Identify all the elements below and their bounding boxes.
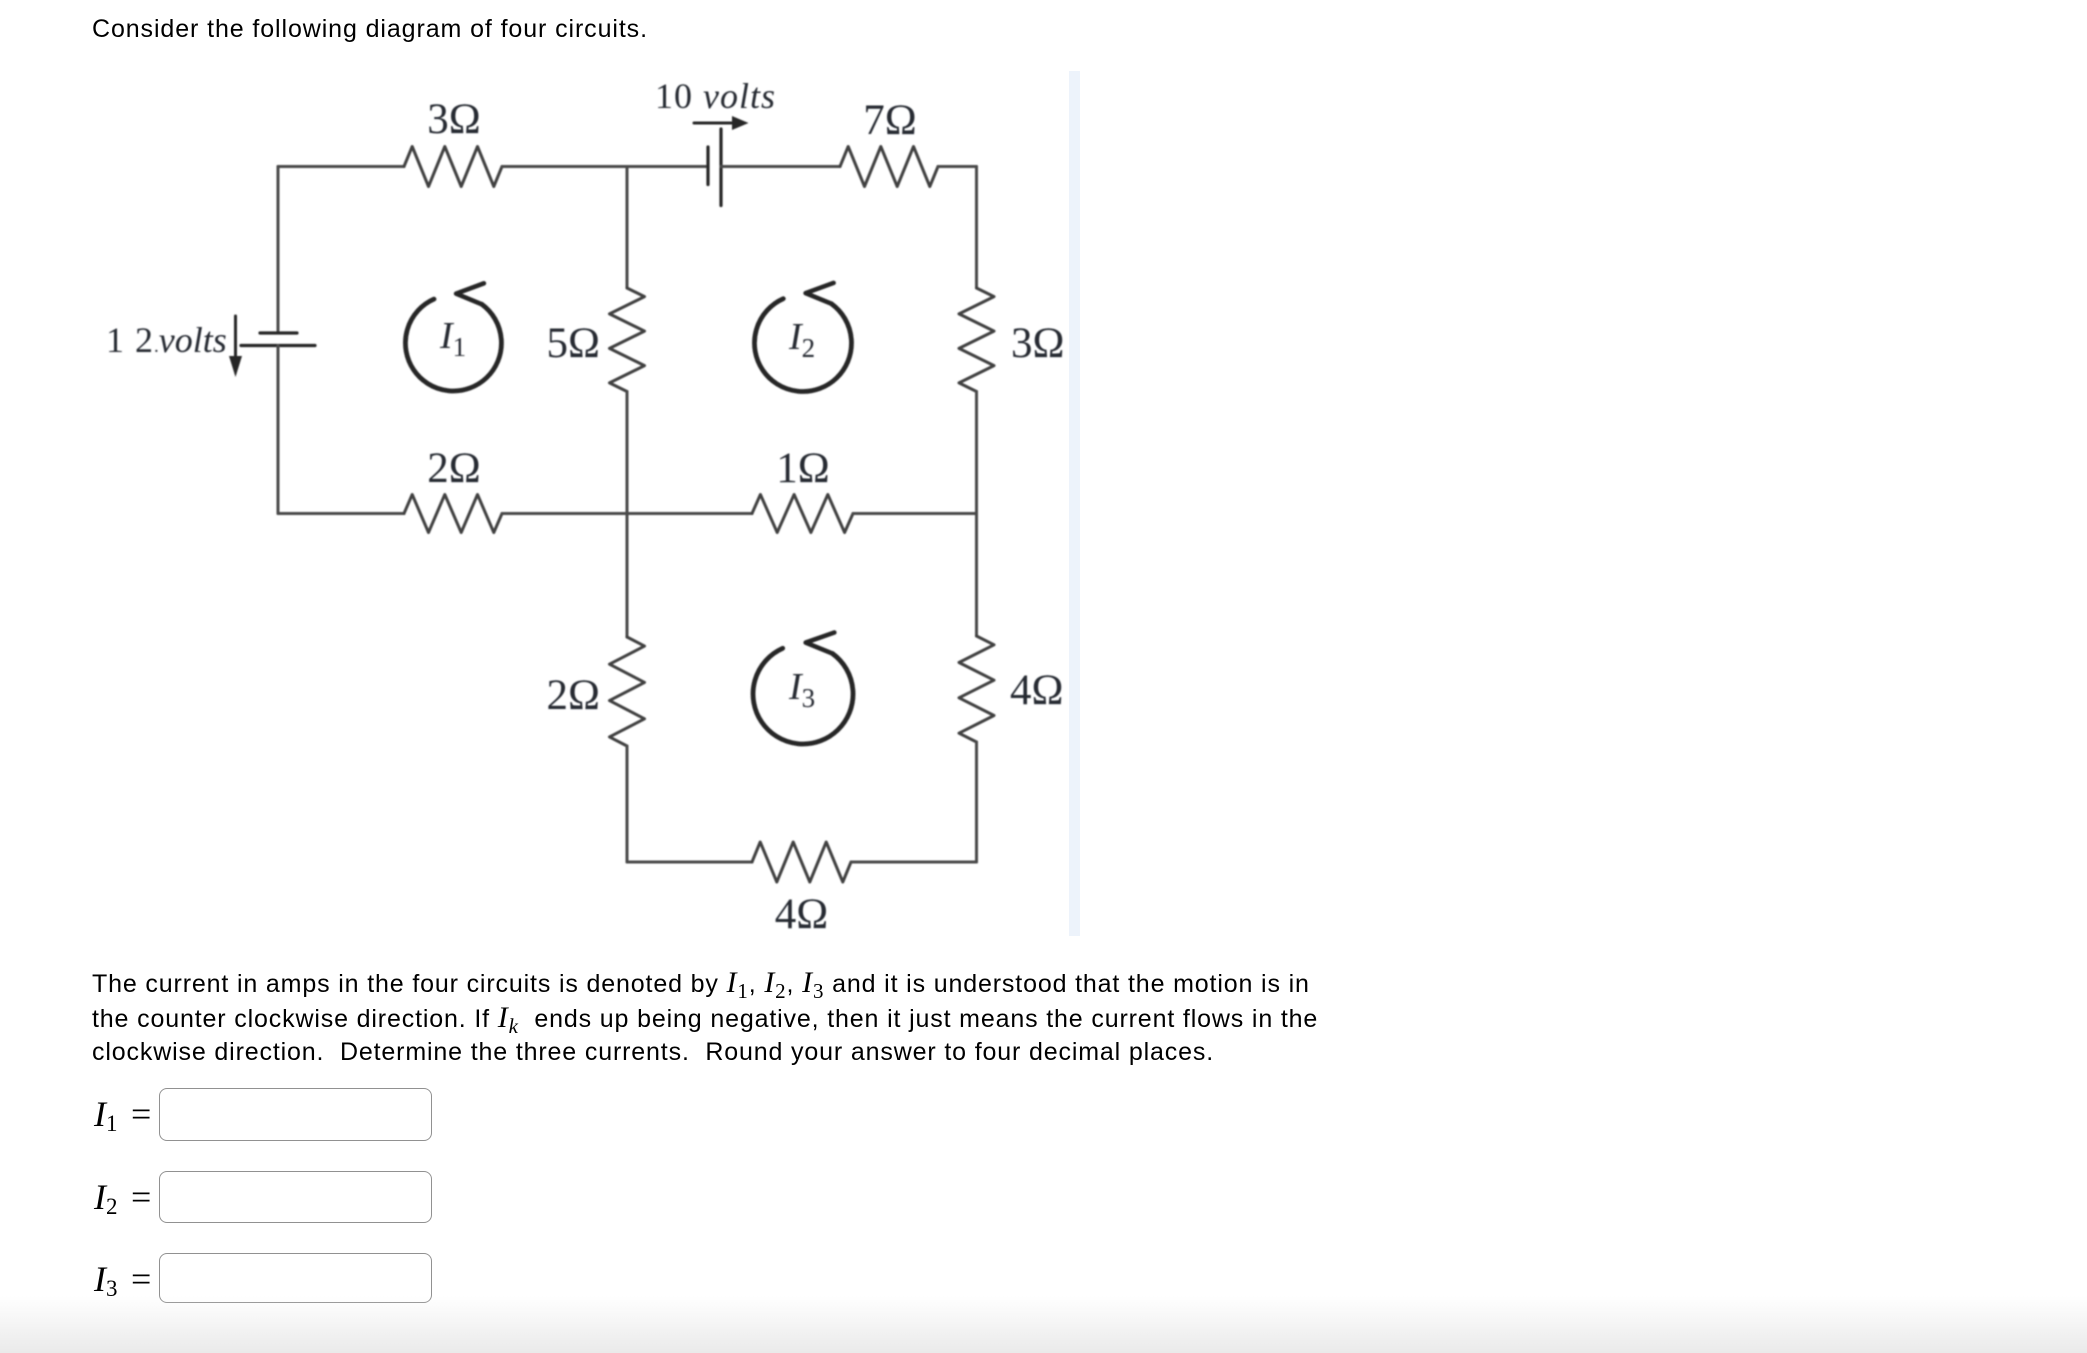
loop current I3 circle [753,648,853,744]
bottom gradient band [0,1296,2087,1353]
svg-text:4Ω: 4Ω [775,891,828,938]
wire right vertical bottom stub [975,742,978,862]
label 3 ohm top [427,96,480,143]
answer input box I3 [159,1253,432,1303]
arrow beside battery B1 line [234,316,237,358]
label 5 ohm [547,320,600,367]
answer label I3 = [94,1261,151,1297]
loop current I3 arrowhead [806,633,835,654]
resistor R 3ohm top [404,147,502,187]
wire middle horizontal center [502,512,752,515]
label loop current I3 [788,666,815,713]
loop current I1 arrowhead [456,283,484,304]
wire middle vertical bottom stub [626,746,629,862]
wire bottom left [627,861,752,864]
resistor R 7ohm top [840,147,938,187]
resistor R 2ohm lower vertical [610,637,645,746]
svg-text:2Ω: 2Ω [427,445,480,492]
loop current I2 arrowhead [806,283,834,304]
label 2 ohm lower [547,672,600,719]
paragraph text [92,966,1432,1070]
loop current I1 circle [405,299,501,391]
wire middle vertical center segment crossing node [626,392,629,638]
label 4 ohm bottom [775,891,828,938]
wire left upper segment [277,167,280,334]
answer input box I1 [159,1088,432,1141]
resistor R 5ohm vertical [610,288,645,392]
wire bottom right [851,861,977,864]
battery B2 10 volts short plate [706,147,709,185]
wire left lower segment [277,346,280,514]
battery B2 10 volts long plate [719,129,722,206]
svg-text:1 2.volts: 1 2.volts [106,320,227,360]
resistor R 4ohm right vertical [959,636,994,742]
arrowhead above battery B2 [732,116,749,130]
label 1 ohm middle [776,445,829,492]
resistor R 3ohm right vertical [959,288,994,392]
answer input box I2 [159,1171,432,1223]
wire top between 3ohm and battery 10V [502,165,708,168]
answer label I2 = [94,1179,151,1215]
label 12 volts [106,320,227,360]
svg-text:10 volts: 10 volts [655,76,776,116]
label loop current I1 [439,315,466,362]
resistor R 4ohm bottom horizontal [752,842,851,882]
svg-text:7Ω: 7Ω [863,97,916,144]
wire middle horizontal right [853,512,977,515]
svg-text:5Ω: 5Ω [547,320,600,367]
svg-text:I2: I2 [788,316,815,363]
wire top right to corner [938,165,977,168]
arrow above battery B2 [694,122,734,125]
label 4 ohm right [1010,667,1063,714]
loop current I2 circle [754,299,851,392]
resistor R 1ohm middle horizontal [752,495,853,533]
wire top between battery 10V and 7ohm [721,165,840,168]
wire right vertical center segment [975,392,978,637]
battery B1 12 volts long plate [241,344,315,347]
svg-text:3Ω: 3Ω [427,96,480,143]
label 7 ohm top [863,97,916,144]
embedded image right-edge blue band [1069,71,1080,936]
svg-text:2Ω: 2Ω [547,672,600,719]
svg-text:I1: I1 [439,315,466,362]
label loop current I2 [788,316,815,363]
wire middle horizontal left [278,512,404,515]
title text [92,15,648,44]
arrowhead beside battery B1 [229,356,242,377]
label 10 volts [655,76,776,116]
svg-text:1Ω: 1Ω [776,445,829,492]
battery B1 12 volts short plate [260,331,297,334]
svg-text:4Ω: 4Ω [1010,667,1063,714]
label 3 ohm right [1011,320,1064,367]
svg-text:I3: I3 [788,666,815,713]
label 2 ohm middle [427,445,480,492]
resistor R 2ohm middle horizontal [404,495,502,533]
svg-text:3Ω: 3Ω [1011,320,1064,367]
wire right vertical upper stub [975,167,978,289]
answer label I1 = [94,1096,151,1132]
wire top from left corner to 3ohm [278,165,404,168]
wire middle vertical upper stub [626,167,629,289]
